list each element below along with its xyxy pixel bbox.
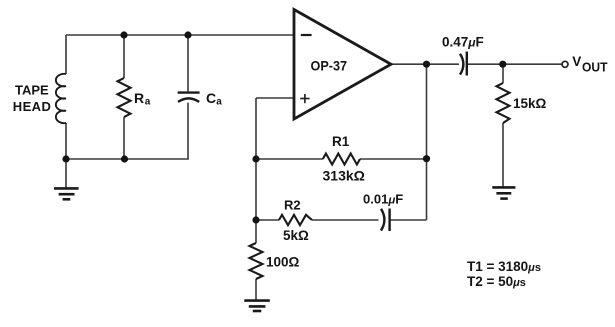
svg-text:R2: R2 [284, 198, 301, 213]
svg-text:T1 = 3180μs: T1 = 3180μs [467, 259, 541, 274]
svg-text:T2 = 50μs: T2 = 50μs [467, 274, 526, 289]
svg-text:OUT: OUT [582, 60, 608, 74]
svg-text:V: V [572, 54, 581, 69]
svg-text:313kΩ: 313kΩ [323, 167, 365, 183]
svg-text:15kΩ: 15kΩ [513, 96, 547, 111]
svg-text:a: a [216, 97, 222, 108]
svg-text:a: a [145, 97, 151, 108]
svg-text:100Ω: 100Ω [266, 254, 300, 269]
svg-text:TAPE: TAPE [15, 83, 49, 98]
svg-text:5kΩ: 5kΩ [283, 228, 309, 243]
svg-text:HEAD: HEAD [13, 99, 51, 114]
svg-text:0.47μF: 0.47μF [442, 35, 484, 50]
svg-text:R1: R1 [332, 134, 350, 149]
svg-text:OP-37: OP-37 [311, 58, 348, 74]
svg-text:0.01μF: 0.01μF [363, 191, 403, 206]
svg-text:R: R [134, 90, 144, 106]
svg-text:C: C [206, 90, 216, 106]
